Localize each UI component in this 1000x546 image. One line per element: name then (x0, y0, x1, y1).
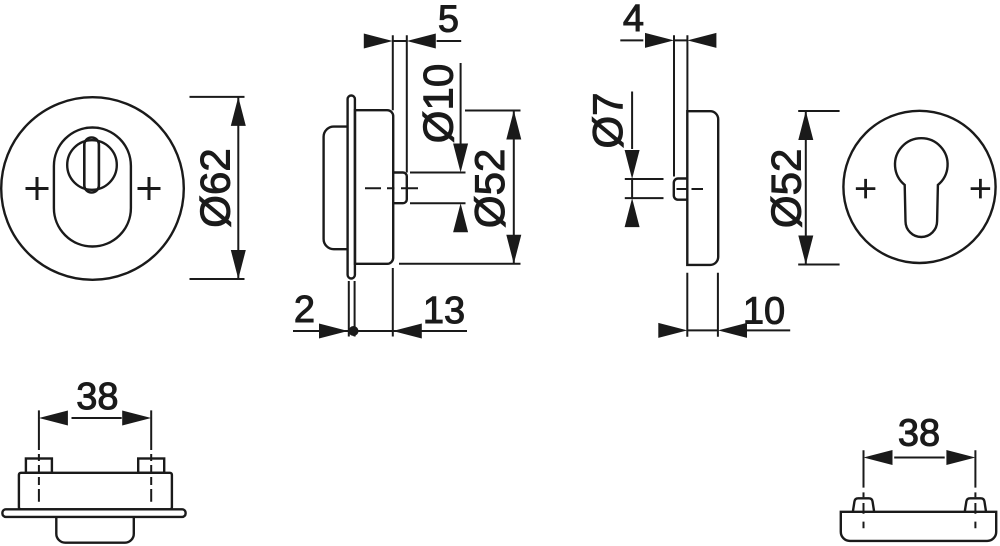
svg-text:Ø52: Ø52 (763, 149, 810, 228)
svg-text:Ø7: Ø7 (584, 92, 631, 148)
svg-text:5: 5 (438, 0, 459, 40)
svg-text:4: 4 (623, 0, 644, 40)
svg-text:Ø10: Ø10 (415, 64, 462, 143)
svg-text:38: 38 (76, 376, 118, 418)
svg-text:2: 2 (294, 289, 315, 331)
svg-text:38: 38 (898, 413, 940, 455)
svg-text:10: 10 (743, 290, 785, 332)
svg-text:13: 13 (423, 290, 465, 332)
svg-text:Ø52: Ø52 (466, 149, 513, 228)
svg-text:Ø62: Ø62 (192, 148, 239, 227)
